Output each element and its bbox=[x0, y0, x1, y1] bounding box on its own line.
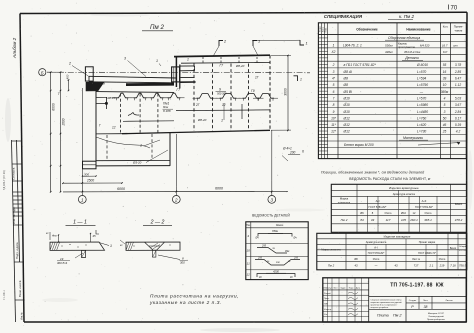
svg-text:Ø5 ВI: Ø5 ВI bbox=[343, 90, 353, 94]
svg-text:Ø12: Ø12 bbox=[343, 116, 350, 120]
svg-text:тм: тм bbox=[276, 262, 280, 264]
svg-text:0.17: 0.17 bbox=[455, 116, 461, 120]
svg-text:М4 520: М4 520 bbox=[420, 43, 430, 47]
svg-text:45: 45 bbox=[93, 234, 97, 238]
svg-text:кг: кг bbox=[46, 232, 49, 235]
svg-text:Марка элемента: Марка элемента bbox=[321, 249, 341, 252]
svg-text:3: 3 bbox=[124, 57, 126, 61]
svg-text:Поз.: Поз. bbox=[325, 27, 328, 32]
svg-text:Наименование: Наименование bbox=[406, 28, 430, 32]
svg-text:Обозначение: Обозначение bbox=[356, 28, 378, 32]
svg-text:L=5790: L=5790 bbox=[417, 83, 428, 87]
svg-text:Итого: Итого bbox=[385, 211, 392, 215]
svg-text:L=730: L=730 bbox=[417, 130, 426, 134]
svg-text:L=570: L=570 bbox=[417, 96, 426, 100]
svg-text:3: 3 bbox=[271, 197, 274, 202]
svg-text:Сборочная единица: Сборочная единица bbox=[388, 36, 420, 40]
svg-text:А-I: А-I bbox=[376, 199, 380, 203]
svg-text:8: 8 bbox=[372, 211, 374, 215]
svg-text:4: 4 bbox=[444, 96, 446, 100]
svg-text:354 М-2-Оке: 354 М-2-Оке bbox=[404, 50, 421, 54]
svg-text:ГОСТ 19903-74*: ГОСТ 19903-74* bbox=[418, 252, 436, 255]
svg-text:717: 717 bbox=[414, 264, 419, 268]
svg-text:Листов: Листов bbox=[445, 300, 453, 302]
svg-text:43: 43 bbox=[394, 264, 398, 268]
svg-text:А-I: А-I bbox=[374, 246, 378, 250]
svg-text:Г9: Г9 bbox=[251, 89, 255, 93]
svg-text:1: 1 bbox=[333, 43, 335, 47]
svg-text:расход: расход bbox=[459, 250, 467, 252]
svg-text:2.85: 2.85 bbox=[454, 70, 461, 74]
svg-text:40: 40 bbox=[259, 276, 262, 279]
svg-text:ГОСТ 5781-82*: ГОСТ 5781-82* bbox=[415, 205, 433, 209]
svg-text:Прокат марки: Прокат марки bbox=[419, 240, 436, 244]
svg-text:2.84: 2.84 bbox=[454, 110, 461, 114]
svg-text:Материалы: Материалы bbox=[403, 136, 424, 140]
svg-text:11: 11 bbox=[247, 262, 250, 266]
svg-text:L=4480: L=4480 bbox=[417, 110, 428, 114]
svg-text:50: 50 bbox=[443, 116, 447, 120]
svg-text:Ленинградский: Ленинградский bbox=[428, 315, 444, 318]
svg-text:360м: 360м bbox=[441, 90, 449, 94]
svg-text:Ø8: Ø8 bbox=[354, 258, 358, 261]
svg-text:ВЕДОМОСТЬ ДЕТАЛЕЙ: ВЕДОМОСТЬ ДЕТАЛЕЙ bbox=[252, 214, 290, 218]
svg-text:43: 43 bbox=[354, 264, 358, 268]
svg-text:9: 9 bbox=[103, 82, 105, 86]
svg-text:к. Пм 2: к. Пм 2 bbox=[399, 14, 414, 19]
svg-text:1: 1 bbox=[306, 42, 308, 46]
svg-text:пространств.: пространств. bbox=[398, 46, 416, 49]
svg-text:6.Р: 6.Р bbox=[443, 50, 447, 54]
svg-text:ТП 705-1-197. 88 КЖ: ТП 705-1-197. 88 КЖ bbox=[390, 282, 444, 288]
svg-text:3000: 3000 bbox=[284, 88, 288, 96]
svg-text:Ø6: Ø6 bbox=[360, 211, 364, 215]
svg-text:6000: 6000 bbox=[52, 103, 56, 111]
svg-text:Инв. № подл.: Инв. № подл. bbox=[12, 206, 16, 224]
svg-text:40: 40 bbox=[290, 276, 293, 279]
svg-text:10: 10 bbox=[247, 249, 251, 253]
svg-text:1Г: 1Г bbox=[255, 76, 259, 80]
svg-text:Ø8-20: Ø8-20 bbox=[197, 118, 207, 122]
svg-text:элемента: элемента bbox=[338, 200, 351, 204]
svg-text:295: 295 bbox=[261, 244, 267, 247]
svg-text:260.1: 260.1 bbox=[409, 218, 418, 222]
svg-text:8: 8 bbox=[333, 103, 335, 107]
svg-text:№док: №док bbox=[340, 287, 345, 290]
svg-text:117: 117 bbox=[386, 218, 391, 222]
svg-text:Форм: Форм bbox=[318, 26, 321, 32]
svg-text:L904-76. 2. 1: L904-76. 2. 1 bbox=[343, 43, 362, 47]
svg-text:Утв.: Утв. bbox=[324, 314, 328, 316]
svg-text:Лист: Лист bbox=[333, 288, 337, 290]
svg-text:Б: Б bbox=[41, 70, 44, 75]
svg-text:Всего: Всего bbox=[450, 247, 457, 250]
svg-text:ГОСТ 5781-82*: ГОСТ 5781-82* bbox=[369, 205, 387, 209]
svg-text:Ø10: Ø10 bbox=[401, 211, 406, 215]
svg-text:L=594: L=594 bbox=[417, 77, 426, 81]
svg-text:Ø10: Ø10 bbox=[343, 103, 350, 107]
svg-text:9: 9 bbox=[219, 88, 221, 92]
svg-text:Стадия: Стадия bbox=[409, 300, 417, 302]
svg-text:Р: Р bbox=[411, 305, 414, 309]
svg-text:16.7: 16.7 bbox=[442, 43, 448, 47]
svg-text:Ø8-20: Ø8-20 bbox=[107, 96, 116, 100]
svg-text:39: 39 bbox=[443, 77, 447, 81]
svg-text:530кг: 530кг bbox=[385, 43, 393, 47]
svg-text:Øч: Øч bbox=[293, 237, 298, 240]
svg-text:Кол.: Кол. bbox=[443, 25, 449, 29]
svg-text:Ø8: Ø8 bbox=[343, 83, 349, 87]
svg-text:№: № bbox=[288, 260, 291, 263]
svg-text:Изделия арматурные: Изделия арматурные bbox=[389, 186, 419, 190]
svg-text:шт: шт bbox=[453, 43, 458, 47]
svg-text:430кг: 430кг bbox=[385, 50, 393, 54]
svg-text:756.5: 756.5 bbox=[459, 264, 466, 268]
svg-text:№: № bbox=[273, 247, 276, 250]
svg-text:Изделия закладные: Изделия закладные bbox=[384, 234, 411, 238]
svg-text:ТД 184-Г (97 2б): ТД 184-Г (97 2б) bbox=[2, 170, 6, 190]
svg-text:7: 7 bbox=[58, 92, 61, 96]
svg-text:12*: 12* bbox=[331, 130, 337, 134]
svg-text:Позиции, обозначенные знаком *: Позиции, обозначенные знаком *, см Ведом… bbox=[321, 171, 424, 175]
svg-text:Лист м: Лист м bbox=[412, 258, 420, 261]
svg-text:6: 6 bbox=[302, 150, 304, 154]
svg-text:Пм 2: Пм 2 bbox=[393, 314, 402, 318]
svg-text:Ø-6010: Ø-6010 bbox=[416, 63, 428, 67]
svg-text:Н.контр.: Н.контр. bbox=[324, 309, 332, 311]
svg-text:Детали: Детали bbox=[404, 56, 418, 60]
svg-text:Согласов.: Согласов. bbox=[12, 167, 16, 180]
svg-text:Лист: Лист bbox=[423, 300, 428, 302]
svg-text:L=5980: L=5980 bbox=[417, 103, 428, 107]
svg-text:1: 1 bbox=[156, 59, 158, 63]
svg-text:указанные на листе 2 п.З.: указанные на листе 2 п.З. bbox=[149, 300, 222, 305]
svg-text:ГИП: ГИП bbox=[324, 303, 329, 305]
svg-text:Взам. инв.№: Взам. инв.№ bbox=[18, 280, 22, 297]
svg-text:46: 46 bbox=[443, 123, 447, 127]
svg-text:Инв.№: Инв.№ bbox=[21, 312, 24, 320]
svg-text:38: 38 bbox=[424, 305, 428, 309]
svg-text:0.39: 0.39 bbox=[455, 123, 461, 127]
svg-text:300: 300 bbox=[180, 261, 185, 265]
svg-text:Г7: Г7 bbox=[177, 88, 181, 92]
svg-text:400: 400 bbox=[66, 74, 70, 79]
svg-text:2: 2 bbox=[174, 197, 178, 202]
svg-text:Пров.: Пров. bbox=[324, 298, 330, 300]
svg-text:5.03: 5.03 bbox=[455, 96, 461, 100]
svg-text:2: 2 bbox=[68, 62, 71, 66]
svg-text:Эскиз: Эскиз bbox=[276, 223, 284, 227]
svg-text:6: 6 bbox=[333, 90, 335, 94]
svg-text:4200: 4200 bbox=[273, 269, 279, 273]
svg-text:ГОСТ 5781-82*: ГОСТ 5781-82* bbox=[368, 252, 385, 255]
svg-text:Промстройпроект: Промстройпроект bbox=[427, 318, 445, 321]
svg-text:4*: 4* bbox=[332, 77, 336, 81]
svg-text:4: 4 bbox=[247, 234, 249, 238]
svg-text:4пв: 4пв bbox=[52, 234, 57, 238]
svg-text:1: 1 bbox=[187, 58, 189, 62]
svg-text:Г: Г bbox=[99, 124, 101, 128]
svg-text:—: — bbox=[417, 90, 424, 94]
svg-text:ВЕДОМОСТЬ РАСХОДА СТАЛИ НА ЭЛЕ: ВЕДОМОСТЬ РАСХОДА СТАЛИ НА ЭЛЕМЕНТ, кг bbox=[349, 177, 431, 181]
svg-text:2500: 2500 bbox=[86, 179, 94, 183]
svg-text:Г7: Г7 bbox=[220, 64, 224, 68]
svg-text:70: 70 bbox=[451, 6, 458, 12]
svg-text:10*: 10* bbox=[331, 116, 337, 120]
svg-text:2000: 2000 bbox=[61, 118, 65, 126]
svg-text:478.2: 478.2 bbox=[455, 218, 463, 222]
svg-text:9: 9 bbox=[333, 110, 335, 114]
svg-text:Каркас: Каркас bbox=[398, 41, 408, 45]
svg-text:СПЕЦИФИКАЦИЯ: СПЕЦИФИКАЦИЯ bbox=[324, 14, 363, 19]
svg-text:105: 105 bbox=[401, 218, 406, 222]
svg-text:84: 84 bbox=[360, 218, 364, 222]
svg-text:Альбом 2: Альбом 2 bbox=[12, 37, 17, 59]
svg-text:7.16: 7.16 bbox=[450, 264, 456, 268]
svg-text:8.188: 8.188 bbox=[163, 109, 171, 113]
svg-text:11*: 11* bbox=[331, 123, 336, 127]
svg-text:1.12: 1.12 bbox=[455, 83, 461, 87]
svg-text:2 — 2: 2 — 2 bbox=[150, 220, 165, 226]
svg-text:6000: 6000 bbox=[117, 187, 125, 191]
svg-text:Пм 2: Пм 2 bbox=[150, 24, 164, 31]
svg-text:Пм 2: Пм 2 bbox=[328, 264, 335, 268]
svg-text:Ø3-20: Ø3-20 bbox=[132, 161, 142, 165]
svg-text:3: 3 bbox=[444, 110, 446, 114]
svg-text:Ø10: Ø10 bbox=[343, 96, 350, 100]
svg-text:12: 12 bbox=[112, 126, 116, 130]
svg-text:295: 295 bbox=[257, 256, 263, 259]
svg-text:Х2: Х2 bbox=[331, 50, 336, 54]
svg-text:1: 1 bbox=[221, 119, 223, 123]
svg-text:219: 219 bbox=[439, 264, 445, 268]
svg-text:33: 33 bbox=[371, 218, 375, 222]
svg-text:12: 12 bbox=[247, 273, 251, 277]
svg-text:Поз: Поз bbox=[246, 225, 250, 227]
svg-text:12: 12 bbox=[413, 211, 416, 215]
svg-text:L=570: L=570 bbox=[417, 70, 426, 74]
svg-text:3: 3 bbox=[333, 70, 335, 74]
svg-text:Ø8: Ø8 bbox=[343, 77, 349, 81]
svg-text:а ГБ1 ГОСТ 5781-82*: а ГБ1 ГОСТ 5781-82* bbox=[344, 63, 377, 67]
svg-text:300 8×4: 300 8×4 bbox=[57, 261, 68, 265]
svg-text:200: 200 bbox=[289, 151, 296, 155]
svg-text:6.47: 6.47 bbox=[455, 77, 461, 81]
svg-text:Минпром СССР: Минпром СССР bbox=[428, 313, 445, 315]
svg-text:Арматура класса: Арматура класса bbox=[393, 192, 416, 196]
svg-text:Итого: Итого bbox=[373, 258, 380, 261]
svg-text:L=620: L=620 bbox=[417, 123, 426, 127]
svg-text:6000: 6000 bbox=[215, 187, 223, 191]
svg-text:Итого: Итого bbox=[439, 258, 446, 261]
svg-text:3.78: 3.78 bbox=[455, 63, 461, 67]
svg-text:850в: 850в bbox=[272, 229, 278, 233]
svg-text:Ø8-20: Ø8-20 bbox=[235, 64, 245, 68]
svg-text:1: 1 bbox=[81, 197, 84, 202]
svg-text:Øч: Øч bbox=[255, 237, 260, 240]
svg-text:99м: 99м bbox=[285, 250, 290, 253]
svg-text:2Г: 2Г bbox=[195, 103, 200, 107]
svg-text:опорных устройств: опорных устройств bbox=[371, 306, 389, 309]
svg-text:А-II: А-II bbox=[422, 199, 427, 203]
svg-text:16: 16 bbox=[443, 70, 447, 74]
svg-text:1 — 1: 1 — 1 bbox=[73, 220, 87, 226]
svg-text:1: 1 bbox=[300, 78, 302, 82]
svg-text:Всего: Всего bbox=[455, 202, 463, 206]
svg-text:3.67: 3.67 bbox=[455, 103, 461, 107]
svg-text:Ø12: Ø12 bbox=[343, 123, 350, 127]
svg-text:300: 300 bbox=[84, 172, 89, 176]
svg-text:2: 2 bbox=[223, 40, 227, 44]
svg-text:кг: кг bbox=[120, 244, 123, 247]
svg-text:—: — bbox=[374, 264, 378, 268]
svg-text:1: 1 bbox=[258, 40, 260, 44]
svg-text:Пм 2: Пм 2 bbox=[341, 218, 348, 222]
svg-text:25: 25 bbox=[442, 130, 447, 134]
svg-text:№: № bbox=[267, 260, 270, 263]
svg-text:Бетон марки М 200: Бетон марки М 200 bbox=[344, 143, 374, 147]
svg-text:7: 7 bbox=[333, 96, 335, 100]
svg-text:Кол.уч: Кол.уч bbox=[327, 288, 333, 290]
svg-text:Ø10: Ø10 bbox=[343, 110, 350, 114]
svg-text:Плита: Плита bbox=[377, 314, 389, 318]
svg-text:7.1.МФ-1: 7.1.МФ-1 bbox=[3, 289, 6, 300]
svg-text:Ø12: Ø12 bbox=[343, 130, 350, 134]
svg-text:55: 55 bbox=[443, 63, 447, 67]
svg-text:295: 295 bbox=[293, 256, 299, 259]
svg-text:10: 10 bbox=[443, 83, 447, 87]
svg-text:Дата: Дата bbox=[356, 288, 361, 290]
svg-text:2.1: 2.1 bbox=[429, 264, 434, 268]
svg-text:Разраб.: Разраб. bbox=[324, 293, 332, 295]
svg-text:500 300: 500 300 bbox=[217, 92, 227, 96]
svg-text:Общий: Общий bbox=[459, 245, 467, 248]
svg-text:5: 5 bbox=[333, 83, 335, 87]
svg-text:2: 2 bbox=[332, 63, 335, 67]
svg-text:Итого: Итого bbox=[425, 211, 432, 215]
svg-text:Ø8 АI: Ø8 АI bbox=[343, 70, 353, 74]
svg-text:Подп: Подп bbox=[349, 288, 354, 290]
svg-text:365.1: 365.1 bbox=[424, 218, 432, 222]
svg-text:Подп. и дата: Подп. и дата bbox=[15, 242, 19, 259]
svg-text:Плита рассчитана на нагрузки,: Плита рассчитана на нагрузки, bbox=[150, 294, 239, 299]
svg-text:L=760: L=760 bbox=[417, 116, 426, 120]
svg-text:4.2: 4.2 bbox=[456, 130, 461, 134]
svg-text:5: 5 bbox=[444, 103, 446, 107]
